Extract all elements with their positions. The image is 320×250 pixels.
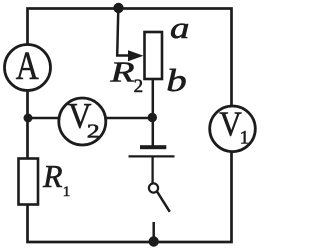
svg-text:1: 1: [63, 184, 71, 200]
wire battery to switch: [151, 158, 153, 184]
svg-text:2: 2: [134, 76, 144, 97]
svg-text:2: 2: [87, 121, 100, 143]
switch blade open: [157, 192, 170, 212]
battery negative thick plate: [140, 145, 166, 149]
wire V2 horizontal branch: [28, 117, 153, 120]
arrowhead of rheostat wiper: [128, 50, 144, 61]
node middle junction dot: [148, 113, 157, 122]
svg-text:b: b: [166, 62, 187, 98]
resistor R1 body: [19, 159, 39, 205]
wire switch bottom stub: [152, 222, 155, 242]
wire outer loop frame: [28, 9, 232, 243]
node bottom junction dot: [149, 236, 159, 246]
ammeter A1 circle: [5, 45, 51, 91]
svg-text:a: a: [170, 10, 190, 45]
voltmeter V1 circle: [210, 106, 256, 152]
switch pivot circle: [149, 183, 158, 192]
rheostat R2 body: [145, 32, 163, 79]
node top junction dot: [113, 3, 123, 13]
wire middle branch R2 bottom to battery: [152, 79, 155, 146]
svg-text:A: A: [16, 43, 39, 88]
battery positive thin plate: [129, 155, 175, 157]
wire wiper branch from top node down and right to R2 arrow: [117, 9, 130, 56]
svg-text:V: V: [219, 105, 242, 144]
svg-text:R: R: [109, 57, 134, 88]
voltmeter V2 circle: [59, 98, 106, 145]
svg-text:1: 1: [240, 127, 250, 148]
svg-text:R: R: [42, 158, 63, 194]
node left junction dot: [24, 114, 33, 123]
